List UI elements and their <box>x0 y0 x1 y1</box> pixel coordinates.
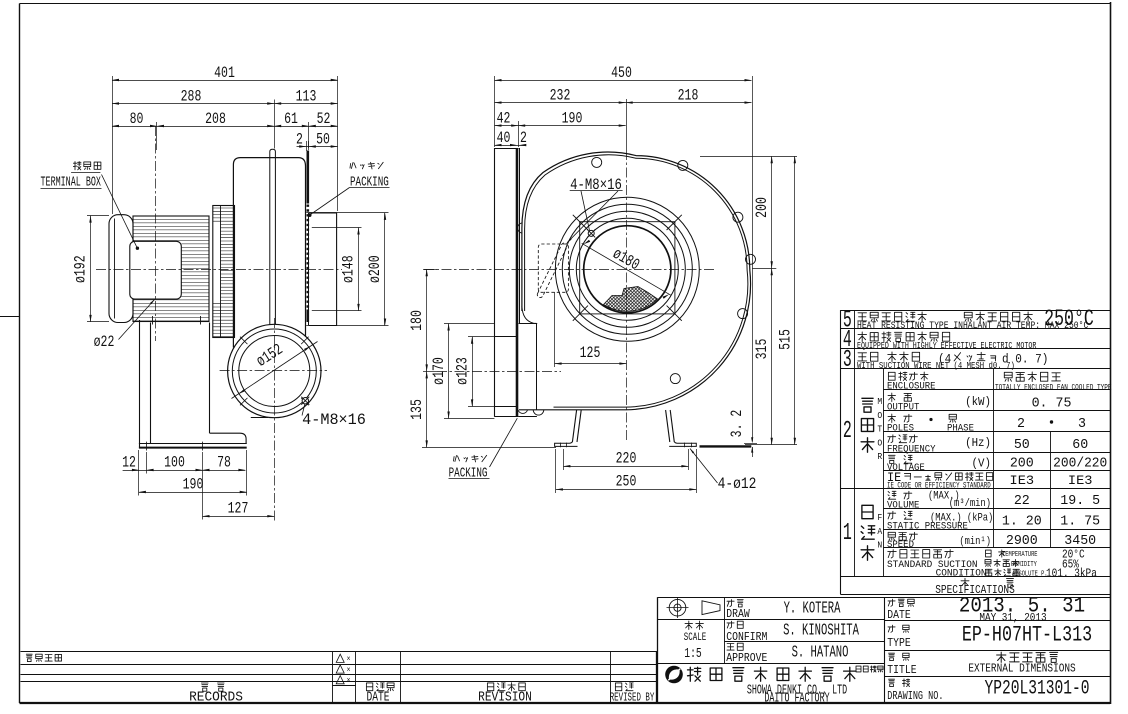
svg-text:42: 42 <box>497 110 511 128</box>
left view: suction flange <box>309 213 337 326</box>
left view: casing seam strip <box>270 149 276 324</box>
type row <box>888 625 909 632</box>
dim phi192 <box>87 215 109 217</box>
label packing right view (jp+en) <box>454 455 487 462</box>
dim 250 <box>555 449 557 493</box>
title block frame <box>657 597 659 703</box>
svg-text:3450: 3450 <box>1064 534 1096 549</box>
left view: centerline terminal box <box>155 126 157 341</box>
right view: hidden screw slot (dashed) <box>536 242 568 299</box>
svg-text:N: N <box>877 540 882 551</box>
dim 220 <box>563 449 565 470</box>
dim phi180 diagonal <box>582 243 671 295</box>
left view: fan cover ribbed band <box>213 206 235 338</box>
first angle projection symbol <box>669 599 686 616</box>
spec row: standard suction condition <box>888 550 953 558</box>
svg-text:SPEED: SPEED <box>887 539 914 551</box>
spec row4: high efficiency motor <box>858 332 950 342</box>
draw/confirm/approve rows <box>727 600 743 607</box>
spec row3: with suction wire net <box>858 352 920 362</box>
svg-text:200/220: 200/220 <box>1053 456 1107 472</box>
spec row: poles phase <box>888 414 912 423</box>
svg-text:135: 135 <box>409 399 427 420</box>
spec row: speed <box>888 532 917 540</box>
dim phi200 <box>384 213 386 326</box>
label packing left view (jp+en) <box>350 162 383 169</box>
svg-text:APPROVE: APPROVE <box>726 652 767 665</box>
svg-text:REVISED BY: REVISED BY <box>610 691 655 704</box>
right view: scroll bottom-left transition to flange <box>522 306 537 324</box>
svg-text:50: 50 <box>1014 438 1030 453</box>
dim 401 <box>112 76 114 214</box>
svg-text:TITLE: TITLE <box>887 664 916 677</box>
company logo <box>665 666 683 684</box>
svg-text:EXTERNAL DIMENSIONS: EXTERNAL DIMENSIONS <box>968 663 1075 676</box>
svg-text:M: M <box>877 396 882 407</box>
svg-text:1. 75: 1. 75 <box>1060 514 1100 529</box>
dim 40 / 2 <box>495 145 525 147</box>
svg-text:50: 50 <box>316 131 330 149</box>
scale cell <box>685 621 703 630</box>
dim 125 <box>554 292 556 367</box>
svg-text:288: 288 <box>181 88 202 106</box>
svg-text:ABSOLUTE P.: ABSOLUTE P. <box>1012 570 1048 578</box>
dim 180 / 135 <box>423 269 437 271</box>
left view: motor body with cooling fins <box>133 216 209 322</box>
right view: M8 hole symbol <box>588 230 594 236</box>
dim 80 / 208 / 61 / 52 <box>156 122 158 150</box>
right view: discharge duct (edge-on) <box>494 148 496 417</box>
dim 232 / 218 <box>495 102 752 104</box>
right view: foot bolt hole ticks <box>560 443 562 448</box>
right view: scroll casing inner parallel line <box>525 155 748 407</box>
svg-text:(V): (V) <box>972 458 991 471</box>
svg-text:DRAW: DRAW <box>726 608 750 621</box>
right view: foot plates <box>555 442 578 447</box>
right view: discharge flange behind packing <box>519 323 537 325</box>
svg-text:PHASE: PHASE <box>947 422 974 434</box>
svg-text:POLES: POLES <box>887 422 914 434</box>
svg-text:HEAT RESISTING TYPE INHALANT A: HEAT RESISTING TYPE INHALANT AIR TEMP: M… <box>857 320 1088 331</box>
svg-text:Y. KOTERA: Y. KOTERA <box>784 599 841 618</box>
spec row: static pressure <box>888 511 912 519</box>
title row <box>889 653 910 660</box>
svg-text:190: 190 <box>183 476 204 494</box>
svg-text:EP-H07HT-L313: EP-H07HT-L313 <box>962 622 1092 647</box>
svg-text:IE3: IE3 <box>1010 473 1035 488</box>
date row <box>888 599 914 606</box>
svg-text:220: 220 <box>616 450 637 468</box>
svg-text:EQUIPPED WITH HIGHLY EFFECTIVE: EQUIPPED WITH HIGHLY EFFECTIVE ELECTRIC … <box>857 341 1036 351</box>
svg-text:WITH SUCTION WIRE NET (4 MESH: WITH SUCTION WIRE NET (4 MESH d0. 7) <box>857 360 1015 371</box>
dim 3.2 <box>752 447 754 457</box>
left view: foot plate <box>139 443 247 445</box>
dim 2 / 50 <box>306 141 308 151</box>
svg-text:(kW): (kW) <box>965 397 991 410</box>
spec row: enclosure <box>888 372 928 381</box>
records: correction note <box>26 654 61 661</box>
svg-text:208: 208 <box>205 110 226 128</box>
left view: suction flange bore lines <box>312 227 362 229</box>
svg-text:4-ø12: 4-ø12 <box>718 476 757 494</box>
svg-text:ø22: ø22 <box>94 333 115 351</box>
svg-text:R: R <box>877 452 882 463</box>
svg-text:ø170: ø170 <box>430 357 448 385</box>
svg-text:200: 200 <box>1010 456 1034 471</box>
svg-text:19. 5: 19. 5 <box>1060 494 1100 509</box>
svg-text:SCALE: SCALE <box>684 631 707 644</box>
spec table frame <box>840 310 1110 312</box>
dim phi170 / phi123 <box>444 323 494 325</box>
svg-text:IE3: IE3 <box>1068 473 1093 488</box>
svg-text:HUMIDITY: HUMIDITY <box>1011 560 1037 568</box>
svg-text:125: 125 <box>580 344 601 362</box>
svg-text:450: 450 <box>611 64 632 82</box>
svg-text:80: 80 <box>130 110 144 128</box>
svg-text:FREQUENCY: FREQUENCY <box>887 443 936 455</box>
svg-text:4-M8×16: 4-M8×16 <box>302 411 366 429</box>
svg-text:200: 200 <box>754 197 772 218</box>
svg-text:2: 2 <box>296 131 303 149</box>
svg-text:CONDITION: CONDITION <box>936 567 987 579</box>
svg-text:60: 60 <box>1072 438 1088 453</box>
page border frame <box>19 4 21 704</box>
svg-text:ø200: ø200 <box>366 255 384 283</box>
svg-text:218: 218 <box>678 87 699 105</box>
svg-text:22: 22 <box>1014 494 1030 509</box>
svg-text:2900: 2900 <box>1006 534 1038 549</box>
left view: pedestal step <box>210 433 247 444</box>
spec row: output <box>888 393 912 402</box>
svg-text:ø148: ø148 <box>340 255 358 283</box>
left view: outlet flange bottom tangent <box>251 417 268 419</box>
dim phi148 <box>358 228 360 311</box>
svg-text:F: F <box>877 512 882 523</box>
records: delta marks <box>336 654 344 662</box>
svg-text:ø123: ø123 <box>454 357 472 385</box>
dim 42 / 190 <box>518 121 520 147</box>
records table frame <box>21 651 658 653</box>
dim phi152 diagonal <box>232 342 318 399</box>
spec row5: heat resisting type <box>858 312 927 322</box>
spec fan group label <box>861 505 875 560</box>
left view: terminal box <box>130 241 182 299</box>
left view: outlet M8 hole symbol <box>302 398 308 404</box>
svg-text:4-M8×16: 4-M8×16 <box>570 177 622 195</box>
dim 450 <box>494 76 496 147</box>
svg-text:O: O <box>877 410 882 421</box>
svg-text:232: 232 <box>550 87 571 105</box>
svg-text:YP20L31301-0: YP20L31301-0 <box>984 678 1089 701</box>
dim 190 <box>139 492 247 494</box>
svg-text:515: 515 <box>777 329 795 350</box>
svg-text:DATE: DATE <box>367 689 390 705</box>
svg-text:(Hz): (Hz) <box>965 438 991 451</box>
svg-text:190: 190 <box>562 110 583 128</box>
svg-text:12: 12 <box>122 454 136 472</box>
svg-text:78: 78 <box>217 454 231 472</box>
right view: wire net mesh patch <box>604 287 658 312</box>
svg-text:101. 3kPa: 101. 3kPa <box>1046 568 1097 581</box>
svg-text:127: 127 <box>228 500 249 518</box>
left view: suction packing (edge-on, dotted) <box>306 151 309 204</box>
svg-text:(m³/min): (m³/min) <box>949 497 991 509</box>
svg-text:DRAWING NO.: DRAWING NO. <box>887 691 943 704</box>
company name <box>688 667 857 681</box>
svg-text:1:5: 1:5 <box>684 646 701 662</box>
right view: net frame square with corner ticks <box>580 222 675 314</box>
records: headers <box>201 683 224 691</box>
svg-text:3: 3 <box>1078 417 1086 432</box>
dim 515 <box>794 156 796 445</box>
left view: flange OD extension lines <box>306 212 388 214</box>
svg-text:T: T <box>877 424 882 435</box>
svg-text:O: O <box>877 438 882 449</box>
svg-text:3. 2: 3. 2 <box>728 410 746 438</box>
svg-text:(min¹): (min¹) <box>959 535 991 547</box>
svg-text:52: 52 <box>317 110 331 128</box>
right view: scroll casing outer outline <box>519 152 751 410</box>
dims 12 / 100 / 78 <box>138 450 140 496</box>
svg-text:40: 40 <box>497 129 511 147</box>
left view: outlet bolt position ticks <box>301 337 308 344</box>
right view: hidden outlet rect (dashed) <box>538 244 568 292</box>
spec row: voltage <box>888 455 912 463</box>
svg-text:250: 250 <box>616 473 637 491</box>
drawing no row <box>889 679 910 687</box>
svg-text:×: × <box>347 666 351 675</box>
svg-text:61: 61 <box>284 110 298 128</box>
svg-text:RECORDS: RECORDS <box>189 689 243 704</box>
svg-text:180: 180 <box>409 310 427 331</box>
spec row: frequency <box>888 435 918 443</box>
dim 288 / 113 <box>274 100 276 149</box>
spec motor group label <box>861 398 874 452</box>
right view: legs <box>572 410 576 442</box>
svg-text:VOLUME: VOLUME <box>887 499 920 511</box>
svg-text:S. HATANO: S. HATANO <box>792 643 849 662</box>
svg-text:2: 2 <box>1017 417 1025 432</box>
svg-text:100: 100 <box>164 454 185 472</box>
dim 127 <box>203 516 275 518</box>
svg-text:3: 3 <box>843 346 852 374</box>
svg-text:S. KINOSHITA: S. KINOSHITA <box>783 621 859 640</box>
left view: motor end cap <box>109 215 133 323</box>
svg-text:CONFIRM: CONFIRM <box>726 631 767 644</box>
svg-text:DAITO FACTORY: DAITO FACTORY <box>764 692 829 706</box>
svg-text:2: 2 <box>843 417 852 445</box>
svg-text:113: 113 <box>296 88 317 106</box>
left view: outlet centerlines <box>274 318 276 521</box>
right view: scroll seam tabs <box>592 157 602 167</box>
border center tick <box>0 316 20 318</box>
left view: pedestal column <box>139 320 141 448</box>
spec row: volume <box>888 491 912 499</box>
right view: ground line thick <box>700 445 752 447</box>
svg-text:OUTPUT: OUTPUT <box>887 401 920 413</box>
svg-text:0. 75: 0. 75 <box>1032 396 1072 411</box>
svg-text:1. 20: 1. 20 <box>1002 514 1042 529</box>
left view: motor foot studs <box>152 316 154 325</box>
right view: bottom seam tabs <box>533 410 544 415</box>
right view: left seam tab on duct <box>518 223 522 233</box>
svg-text:TERMINAL BOX: TERMINAL BOX <box>41 175 101 191</box>
svg-text:REVISION: REVISION <box>478 690 532 705</box>
right view: centerlines <box>626 150 628 441</box>
left view: foot bolt hole ticks <box>146 442 148 451</box>
dim 200 / 315 <box>700 156 797 158</box>
svg-text:TOTALLY ENCLOSED FAN COOLED TY: TOTALLY ENCLOSED FAN COOLED TYPE <box>995 384 1112 393</box>
svg-text:×: × <box>347 677 351 686</box>
label terminal box (jp+en) <box>73 162 101 170</box>
svg-text:×: × <box>347 656 351 665</box>
svg-text:A: A <box>877 526 882 537</box>
svg-text:ENCLOSURE: ENCLOSURE <box>887 380 936 392</box>
left view: scroll casing outline <box>233 158 305 348</box>
page bottom border <box>20 702 1111 704</box>
svg-text:TEMPERATURE: TEMPERATURE <box>1002 550 1038 558</box>
svg-text:401: 401 <box>214 64 235 82</box>
svg-text:DATE: DATE <box>887 609 910 622</box>
svg-text:TYPE: TYPE <box>887 637 910 650</box>
left view: centerline horizontal motor axis <box>96 269 342 271</box>
left view: discharge outlet flange circles <box>228 324 321 417</box>
spec table title: specifications <box>961 578 969 587</box>
svg-text:1: 1 <box>843 519 852 547</box>
svg-text:ø192: ø192 <box>72 255 90 283</box>
right view: inlet rings <box>584 226 671 313</box>
svg-text:315: 315 <box>754 339 772 360</box>
svg-text:2: 2 <box>520 129 527 147</box>
svg-text:STATIC PRESSURE: STATIC PRESSURE <box>887 520 968 532</box>
